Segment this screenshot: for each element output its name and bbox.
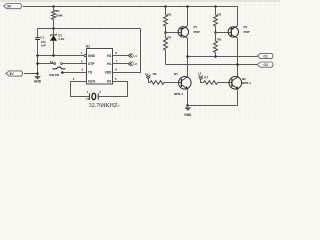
junction rail/Q1 emitter	[186, 5, 189, 8]
switch S1 contact left	[54, 63, 56, 65]
wire GND net to pin 1	[38, 55, 85, 57]
svg-text:R2: R2	[167, 13, 171, 17]
transistor N2 base bar	[231, 79, 233, 87]
wire R4 lead	[165, 33, 167, 39]
wire top rail VDD supply	[23, 6, 238, 8]
svg-text:GND: GND	[34, 80, 42, 84]
junction line2/P2 collector	[236, 63, 239, 66]
wire R6 to N1 base	[164, 82, 181, 84]
junction base node A	[164, 31, 167, 34]
wire P2 collector riser to N2	[237, 38, 239, 76]
wire R2 bottom lead	[165, 26, 167, 33]
wire L1 to R6	[149, 79, 151, 83]
svg-text:1nF: 1nF	[41, 44, 47, 48]
svg-text:U1: U1	[86, 44, 90, 48]
wire N2 emitter to gnd rail	[237, 89, 239, 105]
svg-text:N1: N1	[174, 72, 178, 76]
transistor P1 collector	[181, 35, 187, 38]
transistor P1 base bar	[180, 28, 182, 36]
svg-text:P1: P1	[194, 25, 198, 29]
wire P1 collector riser to N1	[187, 38, 189, 76]
port O2 output	[257, 62, 273, 67]
svg-text:L2: L2	[133, 62, 137, 66]
svg-text:XO: XO	[107, 80, 112, 84]
wire base B	[216, 32, 232, 34]
wire pin 4 to crystal	[71, 82, 90, 97]
port 3V+ (battery positive)	[4, 4, 22, 9]
wire N1 emitter to gnd rail	[187, 89, 189, 105]
wire R4 to line2	[165, 50, 167, 64]
wire pin 8 stub	[113, 55, 129, 57]
junction line1/P1 collector	[186, 55, 189, 58]
transistor P2 circle	[228, 27, 238, 37]
port 3V- (battery negative)	[6, 71, 23, 76]
svg-text:100K: 100K	[55, 14, 63, 18]
net connector L1 chevrons	[128, 54, 132, 58]
svg-text:1.6V: 1.6V	[58, 37, 64, 41]
svg-text:R6: R6	[153, 72, 157, 76]
junction base node B	[214, 31, 217, 34]
wire R3 bottom lead	[215, 26, 217, 33]
wire P2 emitter riser	[237, 7, 239, 26]
resistor R4	[164, 38, 168, 50]
svg-text:SW-PB: SW-PB	[49, 73, 60, 77]
junction pin1-line/C1 column	[36, 54, 39, 57]
transistor N2 collector diag	[232, 77, 239, 81]
junction rail/R1	[52, 5, 55, 8]
wire D1 top lead	[53, 29, 55, 35]
transistor P2 emitter arrow	[232, 28, 234, 30]
resistor R1	[52, 10, 56, 19]
IC U1 body	[87, 49, 113, 85]
wire line2 net	[166, 64, 258, 66]
junction gnd rail/N1 emitter	[186, 104, 189, 107]
transistor P2 base bar	[230, 28, 232, 36]
svg-text:R4: R4	[167, 36, 171, 40]
junction pin1-line/D1	[52, 54, 55, 57]
transistor P1 emitter	[181, 26, 187, 30]
wire N1 collector riser	[188, 75, 190, 77]
wire R3 top lead	[215, 7, 217, 16]
resistor R5	[214, 41, 218, 53]
wire pin 3 stub	[62, 72, 86, 74]
switch S1 contact right	[61, 63, 63, 65]
crystal Y1 plates	[89, 93, 98, 99]
resistor R6	[150, 81, 164, 85]
wire VDD sub-rail	[38, 28, 141, 30]
transistor N1 circle	[179, 77, 192, 90]
svg-text:Y1: Y1	[86, 97, 90, 101]
resistor R2	[164, 15, 168, 26]
wire pin2 net left of switch	[38, 63, 54, 65]
transistor N2 circle	[229, 77, 242, 90]
wire pin2 net right of switch	[62, 63, 86, 65]
transistor N1 emitter diag	[181, 85, 188, 89]
svg-text:32.768KHZ-: 32.768KHZ-	[89, 103, 120, 109]
svg-text:H2: H2	[107, 54, 111, 58]
wire D1 bottom lead	[53, 41, 55, 56]
svg-text:NPN-1: NPN-1	[242, 81, 251, 85]
junction pin2-line/C1 column	[36, 62, 39, 65]
svg-text:3V: 3V	[7, 4, 12, 8]
svg-text:R5: R5	[217, 38, 221, 42]
svg-text:OTP: OTP	[88, 62, 95, 66]
svg-text:L2: L2	[198, 72, 202, 76]
port O1 output	[257, 53, 273, 58]
svg-text:3V: 3V	[9, 72, 14, 76]
svg-text:C1: C1	[40, 35, 44, 39]
wire pin 7 stub	[113, 63, 129, 65]
terminal dot pin 3	[61, 71, 64, 74]
svg-text:GND: GND	[184, 113, 192, 117]
wire base A	[166, 32, 182, 34]
svg-text:TO: TO	[88, 70, 93, 74]
resistor R3	[214, 15, 218, 26]
net connector L1b chevrons	[146, 75, 150, 79]
wire C1 bottom lead / GND column	[37, 40, 39, 76]
svg-text:O1: O1	[263, 54, 268, 58]
transistor P1 emitter arrow	[182, 28, 184, 30]
transistor N1 base bar	[180, 79, 182, 87]
transistor N2 emitter diag	[232, 85, 239, 89]
svg-text:H1: H1	[107, 62, 111, 66]
wire R5 to line1	[215, 53, 217, 57]
wire port to GND node	[24, 73, 38, 75]
wire ground rail	[188, 105, 238, 107]
svg-text:PNP: PNP	[244, 30, 250, 34]
junction sub-rail/D1	[52, 27, 55, 30]
transistor P1 circle	[178, 27, 188, 37]
ground symbol left	[34, 76, 41, 79]
svg-text:O2: O2	[263, 63, 268, 67]
transistor P2 collector	[231, 35, 237, 38]
wire P1 emitter riser	[187, 7, 189, 26]
wire N2 collector riser	[238, 75, 240, 77]
svg-text:R3: R3	[217, 13, 221, 17]
wire L2 to R7	[201, 80, 204, 83]
transistor N2 emitter arrow	[235, 86, 238, 89]
transistor N1 emitter arrow	[185, 86, 188, 89]
zener D1 cathode bar	[51, 34, 57, 36]
ground symbol right	[184, 107, 191, 110]
transistor N1 collector diag	[181, 77, 188, 81]
svg-text:R1: R1	[56, 9, 60, 13]
transistor P2 emitter	[231, 26, 237, 30]
svg-text:L1: L1	[133, 54, 137, 58]
svg-text:VDD: VDD	[105, 70, 112, 74]
switch S1 actuator bar	[52, 67, 65, 69]
zener D1 triangle	[50, 35, 57, 41]
capacitor C1 plates	[35, 38, 40, 40]
resistor R7	[204, 81, 218, 85]
wire C1 top lead	[37, 29, 39, 38]
crystal Y1 ellipse	[92, 93, 96, 100]
wire R1 top lead	[53, 7, 55, 11]
junction GND node	[36, 72, 39, 75]
junction line1/R5	[214, 55, 217, 58]
wire pin 6 VDD riser	[113, 29, 141, 73]
svg-text:PNP: PNP	[194, 30, 200, 34]
pin 1 inversion bubble	[84, 54, 86, 56]
svg-text:R7: R7	[204, 76, 208, 80]
net connector L2 chevrons	[128, 62, 132, 66]
wire pin 5 XO to crystal	[99, 82, 128, 97]
svg-text:GND: GND	[88, 54, 96, 58]
svg-text:NPN-1: NPN-1	[174, 92, 183, 96]
wire line1 collector net	[188, 56, 258, 58]
wire R7 to N2 base	[218, 82, 232, 84]
svg-text:P2: P2	[244, 25, 248, 29]
junction rail/R3	[214, 5, 217, 8]
junction rail/R2	[164, 5, 167, 8]
wire R1 bottom lead	[53, 19, 55, 28]
svg-text:S1: S1	[50, 60, 54, 64]
wire R2 top lead	[165, 7, 167, 16]
svg-text:CEXI: CEXI	[88, 80, 96, 84]
wire R5 lead	[215, 33, 217, 42]
net connector L2b chevrons	[199, 75, 203, 79]
